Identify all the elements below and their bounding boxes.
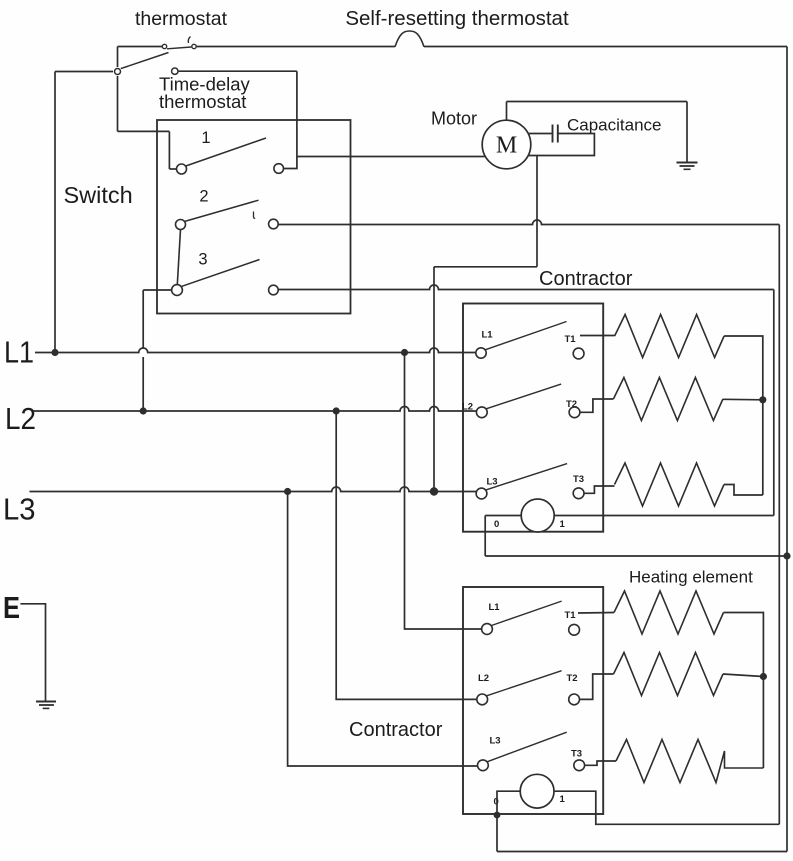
thermostat TH1 apostrophe mark xyxy=(188,37,190,44)
junction dot on L1 at switch vertical xyxy=(51,349,58,356)
switch S0 blade xyxy=(121,53,169,69)
junction dot on L1 at x404.5 xyxy=(401,349,408,356)
svg-text:Contractor: Contractor xyxy=(349,719,443,741)
wire top supply line left segment xyxy=(118,46,163,48)
K1 T1 circle xyxy=(573,348,584,359)
svg-text:0: 0 xyxy=(494,519,499,530)
heating element R6 (ends with hook) xyxy=(616,740,763,783)
switch S3 right contact xyxy=(269,285,279,295)
svg-text:L3: L3 xyxy=(490,736,501,747)
svg-text:L3: L3 xyxy=(3,492,36,527)
wire drop x143.2 down to L2 (hop over L1) xyxy=(142,290,144,348)
switch S2 blade xyxy=(185,200,259,221)
wire feeder x336.2 L2 to lower contactor xyxy=(336,411,477,699)
svg-text:L1: L1 xyxy=(4,335,34,370)
wire right vertical x779 from S2 wire down to lower heater box bottom xyxy=(778,225,780,825)
wire S2 right contact to far right vertical (hop over motor drop) xyxy=(278,220,779,225)
svg-text:Self-resetting thermostat: Self-resetting thermostat xyxy=(345,7,569,30)
wire jog left to x434 xyxy=(434,266,537,268)
switch S1 left contact xyxy=(177,164,187,174)
K1 L3 contact circle xyxy=(476,488,487,499)
wire feed to S1 left contact xyxy=(118,130,170,132)
junction dot on L3 at x287.6 xyxy=(284,488,291,495)
svg-text:1: 1 xyxy=(560,519,566,530)
wire vertical x296.9 down to motor feed corner xyxy=(296,71,298,156)
wire K2 T2 to heater R5 xyxy=(580,674,614,699)
junction dot on L2 at x336.2 xyxy=(333,407,340,414)
K1 T2 circle xyxy=(569,407,580,418)
svg-text:L1: L1 xyxy=(489,602,501,613)
wire Switch vertical down to L1 xyxy=(54,72,56,353)
wire feeder x287.6 L3 to lower contactor xyxy=(288,492,478,767)
wire S3 right contact to contactor box top edge (hop at x434) xyxy=(278,285,774,290)
svg-text:L2: L2 xyxy=(478,673,489,684)
capacitor C1 plates xyxy=(552,125,554,143)
junction dot lower star xyxy=(760,673,767,680)
wire link S2-left to S3-left xyxy=(177,230,180,285)
K1 T3 circle xyxy=(573,488,584,499)
wire R4 right to star vertical xyxy=(724,613,764,769)
svg-text:2: 2 xyxy=(199,188,208,206)
switch S2 left contact xyxy=(176,220,186,230)
motor M1 circle xyxy=(482,120,531,169)
svg-text:Contractor: Contractor xyxy=(539,268,633,290)
wire top-left corner drop to switch pivot xyxy=(117,47,119,68)
heating element R3 xyxy=(615,463,725,506)
svg-text:M: M xyxy=(496,133,517,159)
wire L3 phase line (hops at x336.2,x404.5) xyxy=(30,487,477,492)
ground symbol at motor xyxy=(677,162,698,164)
switch S2 right contact xyxy=(269,219,279,229)
wire pivot drop down xyxy=(117,76,119,131)
wire S3 left stub to drop wire xyxy=(143,289,171,291)
svg-text:1: 1 xyxy=(560,794,566,805)
heating element R1 xyxy=(615,315,725,358)
switch S1 right contact xyxy=(274,164,284,174)
svg-text:T1: T1 xyxy=(565,334,577,345)
switch S1 blade xyxy=(186,138,266,166)
svg-text:0: 0 xyxy=(494,797,499,808)
K1 L1 blade xyxy=(486,322,567,350)
wire R1 right to star vertical xyxy=(724,336,763,495)
K2 T3 circle xyxy=(574,760,585,771)
svg-text:Capacitance: Capacitance xyxy=(567,116,662,135)
K1 L1 contact circle xyxy=(476,348,486,358)
svg-text:Heating element: Heating element xyxy=(629,568,753,587)
svg-text:E: E xyxy=(3,590,20,625)
wire K1 T2 to heater R2 xyxy=(580,399,614,412)
wire L1 phase line (hops at x143.2,x434) xyxy=(35,348,476,353)
svg-text:Motor: Motor xyxy=(431,109,477,129)
switch S0 pivot circle (main switch) xyxy=(115,69,121,75)
svg-text:T3: T3 xyxy=(571,749,582,760)
wire top supply line right segment xyxy=(424,46,787,48)
wire contactor outer box right edge xyxy=(773,290,775,516)
svg-text:T1: T1 xyxy=(565,610,577,621)
time-delay thermostat switch box outline xyxy=(157,120,351,314)
K2 T1 circle xyxy=(569,624,580,635)
wire capacitor right loop back to motor bottom xyxy=(528,134,594,156)
switch S2 small iota mark xyxy=(254,212,256,219)
thermostat TH1 contact circle left xyxy=(162,44,166,48)
wire K2 coil left to bottom return xyxy=(497,791,520,851)
wire S1 right contact stub up to motor feed xyxy=(284,157,297,169)
K2 L2 blade xyxy=(487,671,562,696)
junction dot coil-left wire crossing K2 box bottom xyxy=(494,812,501,819)
svg-text:T2: T2 xyxy=(567,673,578,684)
svg-text:thermostat: thermostat xyxy=(159,91,246,112)
wire motor top to ground run xyxy=(506,102,508,121)
wire drop x434 to L3 (passes L1,L2) xyxy=(433,267,435,492)
time-delay thermostat terminal circle xyxy=(172,68,178,74)
K2 L2 contact circle xyxy=(477,694,488,705)
wire pivot to left vertical xyxy=(55,71,113,73)
svg-text:L2: L2 xyxy=(462,402,473,413)
wire coil-left drop to return line xyxy=(484,516,486,557)
wire K2 coil right loop down right and up xyxy=(554,791,779,824)
svg-text:Switch: Switch xyxy=(64,182,133,208)
wire feeder x404.5 L1 to lower contactor xyxy=(405,353,482,630)
wire bottom return line xyxy=(497,851,787,853)
wire K2 T3 to heater R6 xyxy=(585,761,616,765)
wire L2 phase line (hops at x404.5,x434) xyxy=(33,407,476,412)
heating element R4 xyxy=(614,591,724,634)
heating element R2 xyxy=(613,378,723,421)
K2 L3 blade xyxy=(487,732,566,762)
wire R3 right jog to star bottom xyxy=(724,485,763,496)
contactor K1 box xyxy=(463,304,603,532)
wire K1 T3 to heater R3 xyxy=(584,486,615,493)
K1 L2 blade xyxy=(486,384,561,409)
wire motor branch drop x537 xyxy=(536,156,538,267)
K2 T2 circle xyxy=(569,694,580,705)
svg-text:3: 3 xyxy=(198,251,207,269)
svg-text:1: 1 xyxy=(201,129,210,147)
thermostat TH1 blade (near-closed) xyxy=(167,47,191,49)
svg-text:L3: L3 xyxy=(487,477,498,488)
wire coil return line to right edge dot xyxy=(485,555,787,557)
junction dot on L3 at x434 xyxy=(430,487,438,495)
wire E to earth xyxy=(20,604,45,702)
ground symbol at E xyxy=(36,701,56,703)
K1 coil circle xyxy=(521,499,554,532)
thermostat TH1 contact circle right xyxy=(192,44,196,48)
svg-text:T3: T3 xyxy=(573,474,584,485)
wire R5 right to star dot xyxy=(723,674,763,677)
wire K1 T1 to heater R1 xyxy=(580,335,615,337)
K2 coil circle xyxy=(520,774,554,808)
switch S3 left contact xyxy=(172,285,183,296)
junction dot upper star xyxy=(759,396,766,403)
wire R2 right to star dot xyxy=(723,398,763,401)
svg-text:thermostat: thermostat xyxy=(135,8,228,30)
wire time-delay terminal to right xyxy=(178,70,297,72)
K2 L3 contact circle xyxy=(478,760,489,771)
contactor K2 box xyxy=(463,587,603,814)
self-resetting thermostat TH2 dome symbol xyxy=(395,31,424,47)
wire K2 T1 to heater R4 xyxy=(578,612,614,615)
junction dot node at right edge / coil return line xyxy=(783,552,790,559)
svg-text:L1: L1 xyxy=(482,330,494,341)
wire motor feed line xyxy=(297,156,485,158)
wire right edge vertical (top line down to bottom line) xyxy=(786,47,788,852)
heating element R5 xyxy=(614,653,724,696)
wire contactor outer box bottom edge through coil xyxy=(485,515,774,517)
K2 L1 contact circle xyxy=(482,624,493,635)
K1 L3 blade xyxy=(486,464,567,490)
K2 L1 blade xyxy=(492,601,562,625)
switch S3 blade xyxy=(182,260,260,287)
wire motor right to capacitor xyxy=(528,133,551,135)
K1 L2 contact circle xyxy=(476,407,487,418)
svg-text:L2: L2 xyxy=(5,401,36,436)
wire top supply line middle segment xyxy=(197,46,395,48)
junction dot on L2 at x143.2 xyxy=(140,407,147,414)
